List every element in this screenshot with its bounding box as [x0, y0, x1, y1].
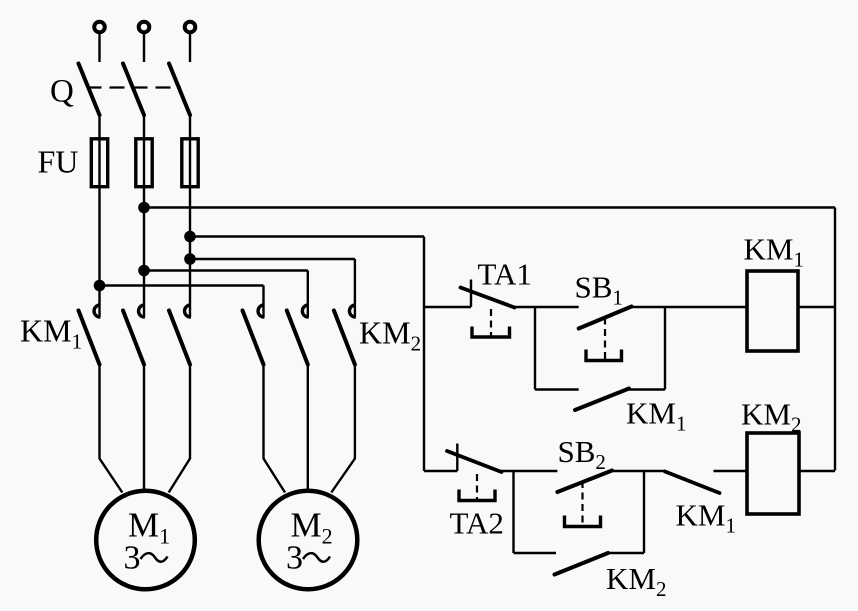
fuse FU3	[182, 139, 198, 187]
switch Q pole 3 blade	[169, 64, 190, 116]
stop button TA1 fixed terminal tick	[470, 280, 472, 308]
wire motor1 lead left	[100, 365, 123, 493]
wire self-hold 2 branch left	[514, 552, 557, 554]
junction dot phase3 feed B	[184, 231, 196, 243]
wire self-hold branch left	[535, 388, 579, 390]
fuse FU1	[91, 139, 107, 187]
stop button TA1 blade (NC)	[461, 288, 515, 308]
wire rung2 TA2 to SB2	[500, 470, 557, 472]
junction dot phase2 feed A	[138, 202, 150, 214]
svg-text:3: 3	[286, 540, 303, 577]
wire phase2 vertical	[143, 115, 145, 317]
wire KM2 coil to right rail	[799, 470, 835, 472]
svg-text:FU: FU	[38, 144, 79, 180]
stop button TA2 pushbutton head	[459, 490, 495, 501]
motor M2	[259, 491, 358, 590]
start button SB1 blade (NO)	[579, 307, 632, 329]
wire rung2 left	[424, 470, 457, 472]
start button SB1 operator dashed link	[604, 318, 606, 360]
coil KM1	[747, 271, 798, 351]
wire rung1 branch right vertical	[664, 307, 666, 390]
wire rung1 branch left vertical	[534, 307, 536, 390]
svg-text:TA2: TA2	[450, 506, 504, 541]
wire feed C horizontal	[190, 258, 355, 260]
wire feed A horizontal to right rail	[144, 206, 835, 208]
contactor KM1 main contact pole3	[169, 305, 191, 365]
svg-text:Q: Q	[50, 74, 74, 110]
contact KM1 auxiliary NC (interlock) blade	[665, 472, 720, 494]
contactor KM1 main contact pole1	[79, 305, 101, 365]
start button SB2 operator dashed link	[581, 481, 583, 526]
junction dot phase1 feed E	[94, 280, 106, 292]
motor M1	[96, 491, 195, 590]
switch Q pole 1 blade	[79, 64, 100, 116]
wire rung2 branch right vertical	[643, 471, 645, 553]
wire feed B horizontal to left rail	[190, 235, 424, 237]
contactor KM2 main contact pole2	[287, 305, 309, 365]
terminal L2	[139, 22, 150, 33]
wire L1 terminal stub	[98, 34, 100, 63]
svg-text:3: 3	[124, 540, 141, 577]
contact KM1 auxiliary NO (self-hold) blade	[575, 389, 629, 411]
wire rung2 interlock to coil	[714, 470, 748, 472]
wire motor2 lead right	[331, 365, 355, 493]
start button SB2 blade (NO)	[557, 471, 612, 493]
wire rung1 TA1 to SB1	[513, 306, 579, 308]
wire motor2 lead middle	[307, 365, 309, 492]
wire KM1 coil to right rail	[798, 306, 835, 308]
stop button TA1 operator dashed link	[490, 309, 492, 336]
wire feed E horizontal	[100, 284, 264, 286]
terminal L1	[94, 22, 105, 33]
svg-text:TA1: TA1	[478, 257, 532, 292]
wire motor2 lead left	[264, 365, 286, 493]
switch Q pole 2 blade	[123, 64, 144, 116]
contactor KM2 main contact pole3	[334, 305, 356, 365]
coil KM2	[747, 433, 799, 514]
start button SB2 pushbutton head	[565, 516, 601, 527]
wire rung2 branch left vertical	[512, 471, 514, 553]
junction dot phase3 feed C	[184, 253, 196, 265]
wire rung1 left	[424, 306, 471, 308]
wire rung2 SB2 to interlock	[612, 470, 665, 472]
wire control left rail	[423, 237, 425, 472]
wire feed C vertical drop	[354, 259, 356, 317]
wire control right rail	[834, 208, 836, 471]
contactor KM2 main contact pole1	[243, 305, 265, 365]
wire phase3 vertical	[189, 115, 191, 317]
stop button TA2 blade (NC)	[447, 451, 502, 472]
wire L2 terminal stub	[143, 34, 145, 63]
fuse FU2	[136, 139, 152, 187]
wire self-hold 2 branch right	[608, 552, 644, 554]
wire rung1 SB1 to coil	[632, 306, 748, 308]
wire feed D vertical drop	[307, 271, 309, 318]
wire motor1 lead right	[169, 365, 190, 493]
wire feed D horizontal	[144, 269, 308, 271]
stop button TA1 pushbutton head	[472, 327, 510, 338]
contact KM2 auxiliary NO (self-hold) blade	[555, 553, 609, 575]
stop button TA2 fixed terminal tick	[456, 444, 458, 472]
wire L3 terminal stub	[189, 34, 191, 63]
start button SB1 pushbutton head	[586, 350, 622, 361]
junction dot phase2 feed D	[138, 265, 150, 277]
terminal L3	[185, 22, 196, 33]
switch Q linkage dashed line	[87, 86, 182, 88]
stop button TA2 operator dashed link	[476, 474, 478, 500]
contactor KM1 main contact pole2	[123, 305, 145, 365]
wire motor1 lead middle	[143, 365, 145, 492]
wire self-hold branch right	[629, 388, 665, 390]
wire phase1 vertical	[98, 115, 100, 317]
wire feed E vertical drop	[262, 286, 264, 318]
